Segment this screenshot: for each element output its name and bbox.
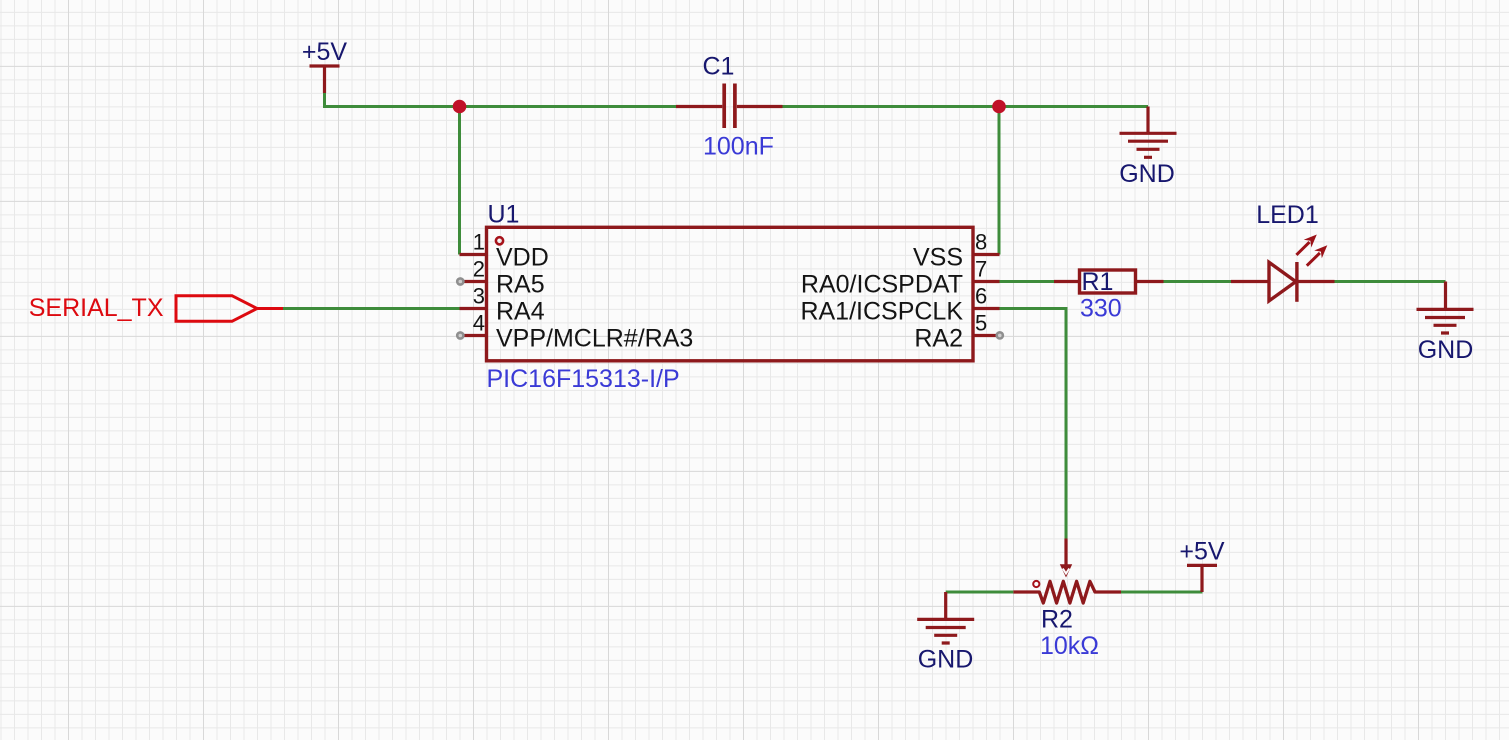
svg-text:R2: R2 [1041, 605, 1073, 633]
svg-text:LED1: LED1 [1256, 201, 1319, 229]
svg-text:4: 4 [473, 311, 485, 336]
svg-text:1: 1 [473, 230, 485, 255]
power flag +5V (bottom right) [1179, 538, 1225, 593]
net flag SERIAL_TX [29, 294, 283, 322]
wire GND3 to R2 [946, 591, 1014, 594]
ground GND3 (bottom) [917, 592, 974, 673]
wire pin 6 down to R2 wiper [1000, 309, 1067, 539]
LED1 triangle [1269, 262, 1296, 301]
svg-text:GND: GND [1119, 160, 1175, 188]
svg-text:8: 8 [975, 230, 987, 255]
wire LED1 to GND2 [1335, 280, 1446, 283]
wire SERIAL_TX to pin 3 [283, 307, 460, 310]
svg-text:330: 330 [1080, 295, 1122, 323]
LED1 cathode bar [1295, 262, 1298, 302]
pin 3 RA4 [460, 284, 545, 326]
wire C1 to junction B [783, 105, 1000, 108]
R1 body box [1080, 270, 1136, 293]
svg-text:GND: GND [1418, 336, 1474, 364]
pin 6 stub [973, 307, 1000, 310]
ground GND1 (top right) [1119, 107, 1176, 188]
pin 7 RA0/ICSPDAT [801, 257, 1000, 299]
pin 2 no-connect dot [457, 278, 463, 284]
svg-text:10kΩ: 10kΩ [1040, 632, 1099, 660]
pin 1 VDD [460, 230, 549, 272]
pin 2 stub [462, 280, 487, 283]
pin 1 indicator [496, 237, 503, 244]
pin 5 no-connect dot [997, 332, 1003, 338]
wire junction B to GND1 [999, 105, 1148, 108]
R2 wiper shaft [1064, 539, 1067, 566]
wire junction A down to pin 1 [458, 107, 461, 255]
resistor R1 [1054, 270, 1164, 293]
R2 zigzag body and leads [1013, 581, 1121, 603]
pin 8 VSS [913, 230, 1000, 272]
R2 pin 1 dot [1033, 581, 1039, 587]
svg-text:RA0/ICSPDAT: RA0/ICSPDAT [801, 271, 963, 299]
svg-text:RA2: RA2 [914, 325, 963, 353]
pin 7 stub [973, 280, 1000, 283]
svg-text:RA5: RA5 [496, 271, 545, 299]
pin 3 stub [460, 307, 487, 310]
pin 2 RA5 [457, 257, 544, 299]
svg-text:U1: U1 [488, 201, 520, 229]
svg-text:PIC16F15313-I/P: PIC16F15313-I/P [487, 365, 680, 393]
LED1 anode lead [1231, 280, 1269, 283]
pin 8 stub [973, 253, 1000, 256]
svg-text:100nF: 100nF [703, 133, 774, 161]
C1 leads [676, 105, 783, 108]
svg-text:6: 6 [975, 284, 987, 309]
capacitor C1 [676, 84, 783, 129]
svg-text:+5V: +5V [1179, 538, 1225, 566]
LED1 cathode lead [1297, 280, 1335, 283]
wire junction B down to pin 8 [998, 107, 1001, 255]
svg-text:+5V: +5V [302, 38, 348, 66]
svg-text:7: 7 [975, 257, 987, 282]
pin 4 no-connect dot [457, 332, 463, 338]
ground GND2 (right) [1417, 282, 1474, 364]
pin 4 VPP/MCLR#/RA3 [457, 311, 693, 353]
R1 leads [1054, 280, 1164, 283]
svg-text:SERIAL_TX: SERIAL_TX [29, 294, 164, 322]
potentiometer R2 [1013, 539, 1121, 604]
junction B [992, 100, 1006, 114]
svg-text:2: 2 [473, 257, 485, 282]
wire junction A to C1 [460, 105, 677, 108]
IC U1 body [487, 227, 974, 360]
svg-text:VDD: VDD [496, 244, 549, 272]
junction A [453, 100, 467, 114]
wire pin 7 to R1 [1000, 280, 1055, 283]
pin 5 RA2 [914, 311, 1003, 353]
R2 wiper arrowhead [1060, 564, 1072, 577]
svg-text:RA4: RA4 [496, 298, 545, 326]
svg-text:R1: R1 [1082, 268, 1114, 296]
wire R1 to LED1 [1164, 280, 1232, 283]
LED1 emission arrow 2 [1307, 253, 1320, 266]
svg-text:VSS: VSS [913, 244, 963, 272]
svg-text:3: 3 [473, 284, 485, 309]
pin 5 stub [973, 334, 997, 337]
C1 plates [724, 84, 735, 129]
power flag +5V (top left) [302, 38, 348, 93]
pin 1 stub [460, 253, 487, 256]
pin 4 stub [462, 334, 487, 337]
wire +5V to junction A [325, 93, 460, 107]
svg-text:5: 5 [975, 311, 987, 336]
svg-text:RA1/ICSPCLK: RA1/ICSPCLK [800, 298, 963, 326]
svg-text:C1: C1 [703, 53, 735, 81]
LED1 emission arrow 1 [1296, 242, 1309, 255]
svg-text:GND: GND [918, 645, 974, 673]
wire R2 to +5V (bottom) [1121, 591, 1203, 594]
svg-text:VPP/MCLR#/RA3: VPP/MCLR#/RA3 [496, 325, 693, 353]
LED LED1 [1231, 235, 1335, 302]
pin 6 RA1/ICSPCLK [800, 284, 999, 326]
